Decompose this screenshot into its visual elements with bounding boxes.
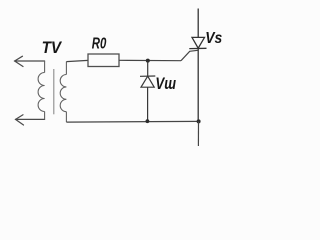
wire resistor to gate jog [119,59,181,61]
svg-text:R0: R0 [92,36,107,53]
transformer core [53,69,55,114]
wire input bottom arrow [16,115,45,125]
wire input top arrow [15,56,45,66]
wire gate jog diagonal [181,50,198,60]
diode Vsh [140,62,155,122]
node junction dot top (diode tap) [146,59,150,63]
svg-text:Vш: Vш [155,75,176,93]
wire thyristor cathode tail [197,121,199,146]
bottom wire [66,120,198,123]
transformer TV secondary winding [60,62,66,123]
wire secondary top to resistor [66,60,88,61]
resistor R0 [88,54,119,67]
svg-text:TV: TV [42,38,63,57]
node junction dot bottom diode [146,119,150,123]
node junction dot bottom thyristor [197,119,201,123]
thyristor Vs [189,9,206,122]
svg-text:Vs: Vs [205,30,222,47]
transformer TV primary winding [38,61,45,119]
